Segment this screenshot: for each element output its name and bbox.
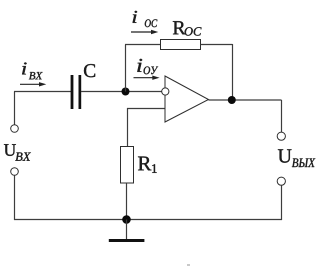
wire: bottom rail: [14, 219, 282, 221]
label U_BYX: BYX subscript: [292, 158, 315, 167]
label U_BX: U: [4, 144, 16, 156]
label R1: 1 subscript: [152, 164, 157, 173]
op-amp U1 triangle: [165, 76, 209, 122]
wire: capacitor to inverting input bubble: [81, 91, 162, 93]
capacitor C right plate: [79, 75, 82, 109]
terminal: U_BX top circle: [11, 125, 19, 133]
wire: feedback top horizontal, left of R_OC: [125, 44, 161, 46]
label i_OY: i: [137, 59, 142, 72]
node: input summing junction dot: [122, 88, 130, 96]
arrow: i_OC current direction: [131, 30, 158, 34]
label C: [84, 64, 95, 77]
faint artifact mark bottom center: [187, 264, 190, 266]
wire: ground stub: [126, 220, 128, 240]
wire: from U_BYX bottom terminal down to bottom rail: [281, 185, 283, 220]
wire: output right vertical down to U_BYX top terminal: [281, 100, 283, 132]
resistor R1 body: [121, 147, 134, 184]
resistor R_OC body: [161, 40, 201, 50]
wire: main input horizontal from corner to capacitor left plate: [14, 91, 71, 93]
wire: feedback left vertical from node up to R_OC line: [125, 45, 127, 92]
wire: from U_BX bottom terminal down to bottom rail: [14, 175, 16, 220]
wire: vertical from non-inverting bend down to R1 top: [127, 108, 129, 147]
terminal: U_BX bottom circle: [11, 168, 19, 176]
label R_OC: R: [173, 21, 186, 34]
wire: left vertical from main line down to U_BX top terminal: [14, 92, 16, 125]
ground symbol bar: [109, 239, 145, 242]
label i_BX: BX subscript: [29, 72, 43, 79]
label U_BYX: U: [278, 149, 292, 162]
label R_OC: OC subscript: [185, 27, 202, 35]
op-amp inverting input bubble: [162, 88, 169, 95]
node: ground junction dot: [122, 215, 131, 224]
label i_BX: i: [22, 62, 26, 74]
wire: non-inverting input horizontal into op-amp: [127, 108, 165, 110]
wire: R1 bottom to ground node: [126, 183, 128, 220]
label U_BX: BX subscript: [15, 153, 31, 161]
terminal: U_BYX top circle: [277, 132, 285, 140]
label i_OC: i: [133, 11, 137, 23]
arrow: i_BX current direction: [20, 82, 46, 86]
label R1: R: [138, 157, 151, 171]
wire: feedback top horizontal, right of R_OC: [201, 44, 233, 46]
label i_OC: OC subscript: [145, 19, 157, 27]
terminal: U_BYX bottom circle: [277, 177, 285, 185]
wire: op-amp output horizontal: [209, 99, 282, 101]
arrow: i_OY current direction: [134, 76, 160, 80]
label i_OY: OY subscript: [144, 66, 158, 74]
node: output junction dot: [228, 96, 236, 104]
wire: feedback right vertical down to output node: [232, 44, 234, 100]
capacitor C left plate: [71, 75, 74, 109]
